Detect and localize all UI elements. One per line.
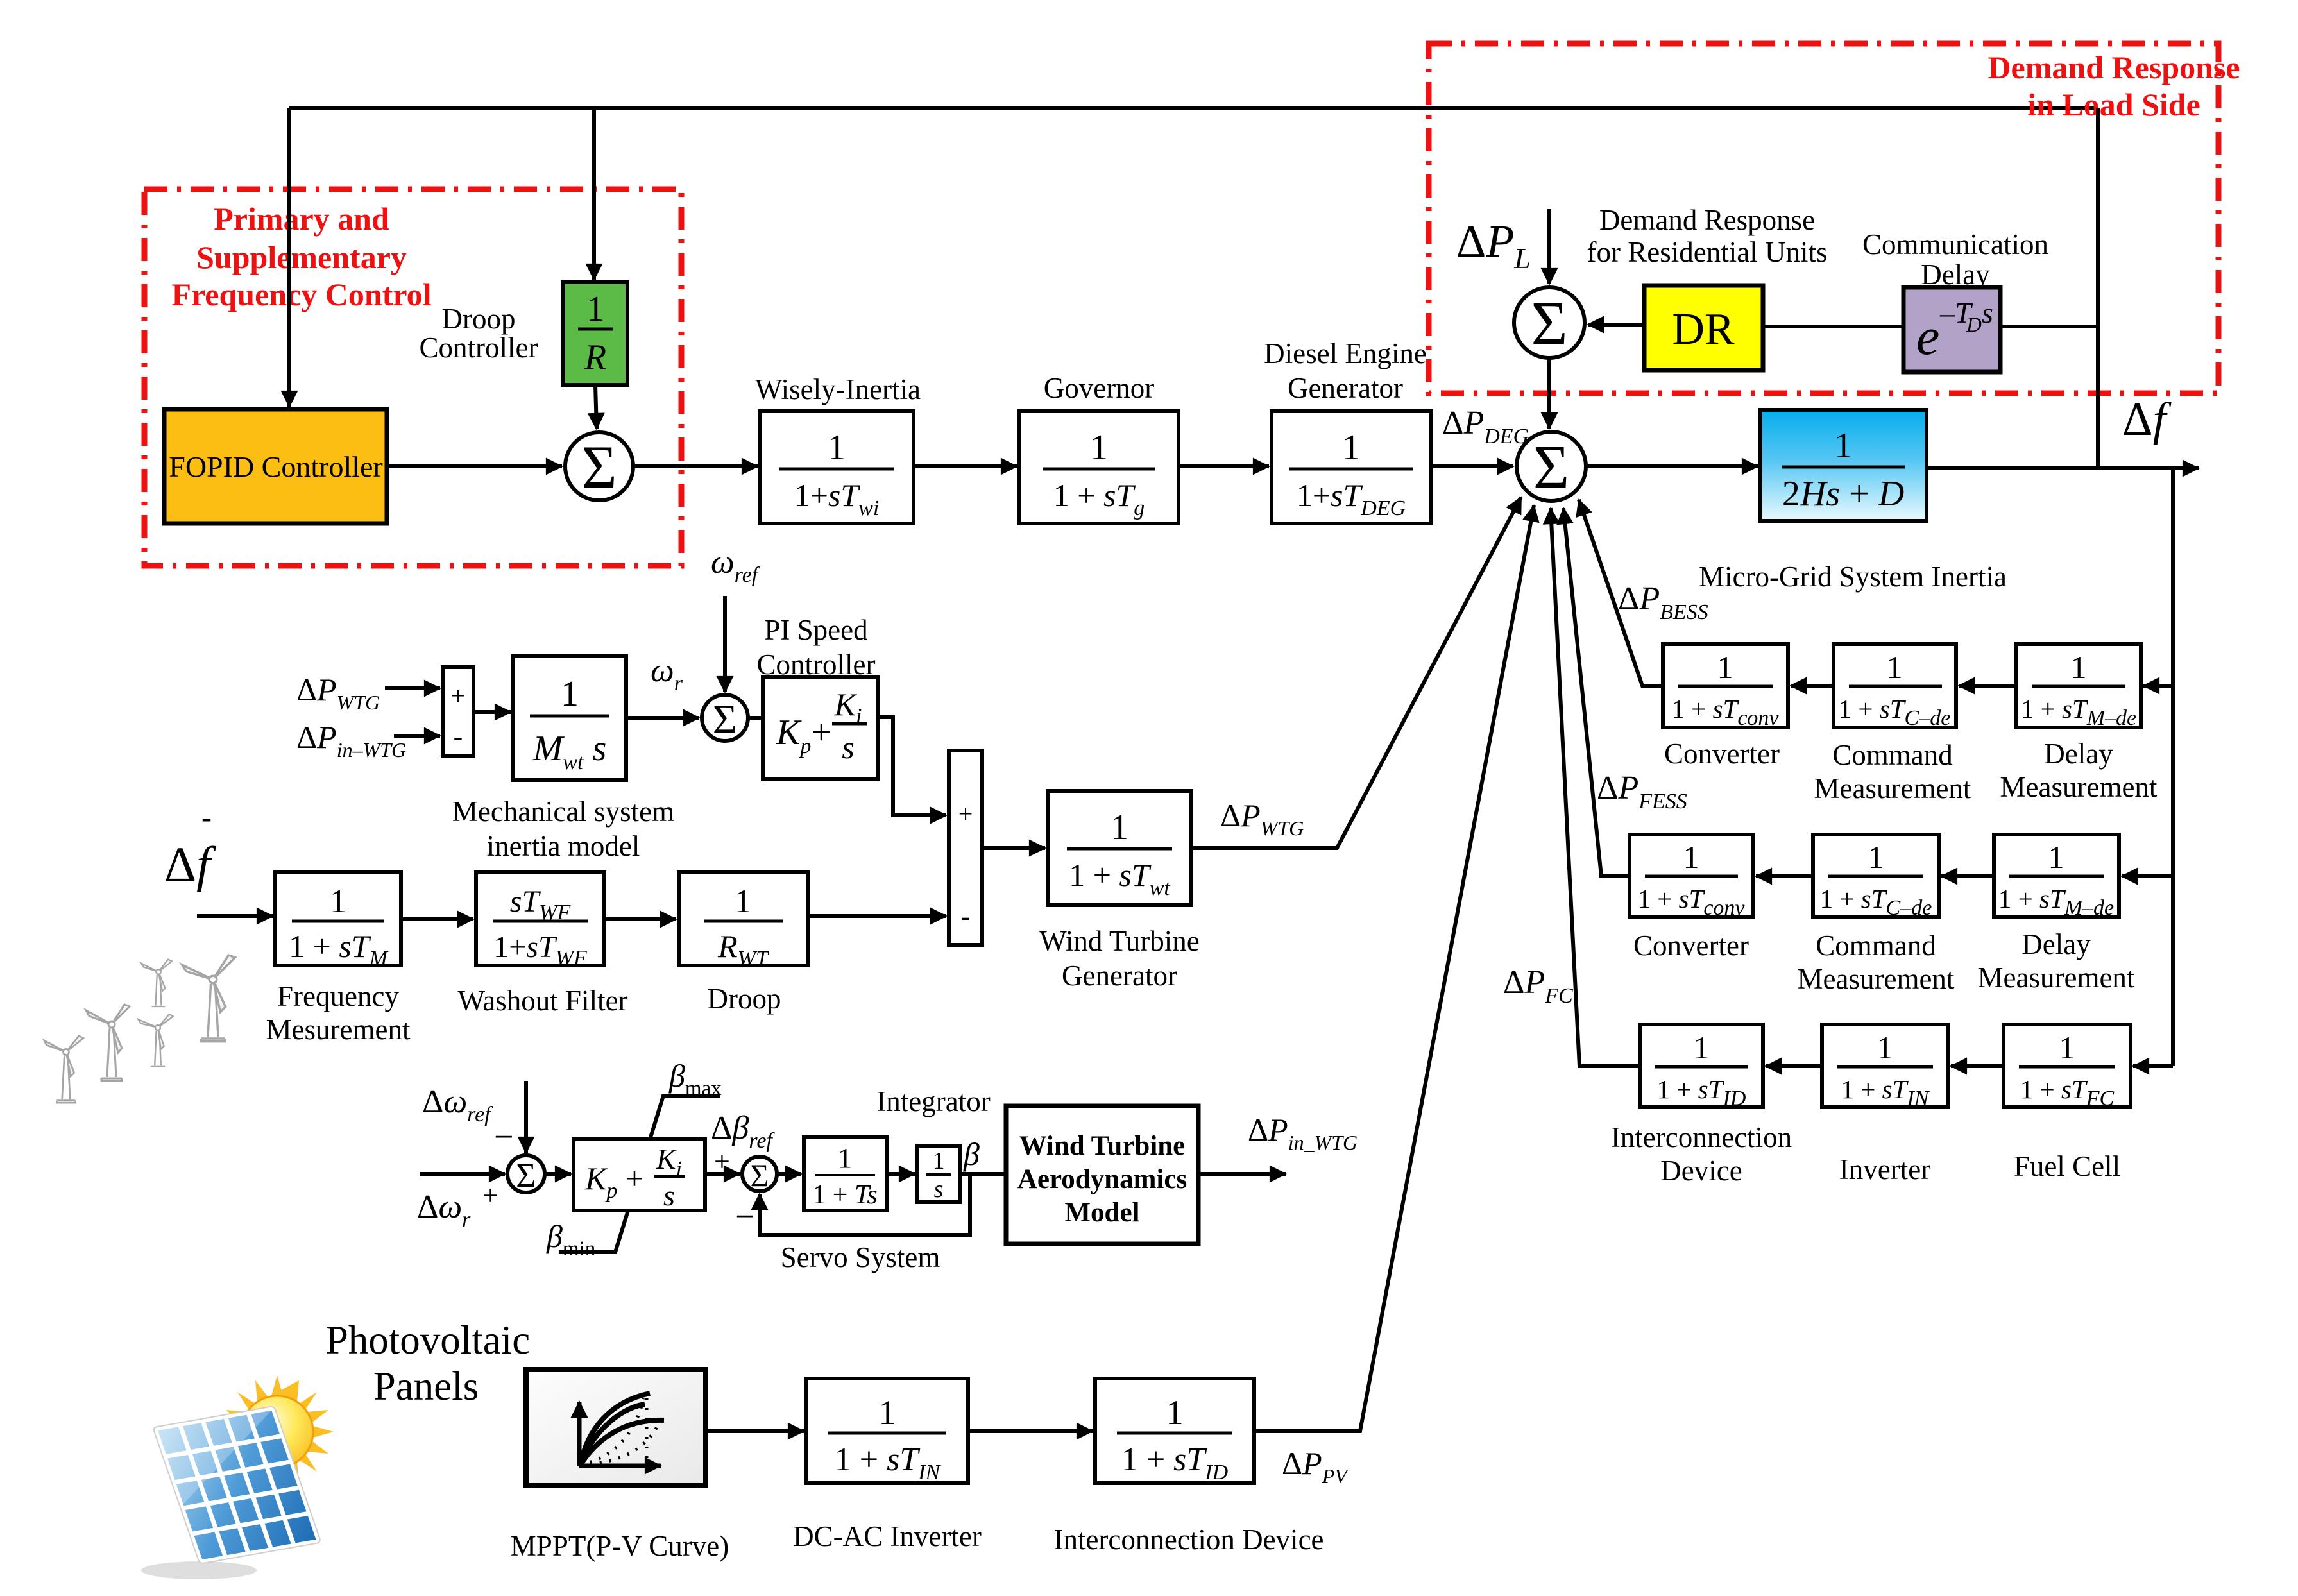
svg-text:Communication: Communication [1862, 228, 2048, 260]
label: Wind Turbine Generator [1039, 925, 1199, 992]
label: Droop Controller [420, 303, 538, 364]
wire: fuel cell to inverter [1951, 1064, 2004, 1068]
svg-text:1: 1 [1090, 428, 1108, 468]
svg-text:Σ: Σ [750, 1157, 769, 1193]
wire: command to converter (FESS) [1756, 874, 1813, 878]
label: PI Speed Controller [757, 614, 876, 681]
svg-text:Converter: Converter [1633, 930, 1749, 962]
label: Command Measurement (BESS) [1814, 739, 1971, 804]
summer: speed error [702, 695, 748, 743]
block: Droop 1/RWT [679, 872, 808, 971]
svg-text:1: 1 [933, 1148, 945, 1175]
wire: droop to combiner minus [808, 914, 946, 918]
svg-text:1: 1 [735, 883, 751, 920]
axes [577, 1402, 582, 1466]
svg-text:Frequency: Frequency [277, 980, 399, 1012]
svg-text:Measurement: Measurement [2000, 771, 2158, 803]
svg-text:+: + [482, 1180, 498, 1211]
svg-text:DC-AC Inverter: DC-AC Inverter [793, 1520, 982, 1552]
label: Delay Measurement (BESS) [2000, 738, 2158, 803]
block: FESS Delay Measurement 1/(1+sTM-de) [1994, 835, 2119, 920]
block: BESS Converter 1/(1+sTconv) [1663, 644, 1788, 730]
svg-text:1: 1 [1166, 1393, 1184, 1432]
wire: delay to command (BESS) [1959, 684, 2016, 688]
svg-text:Δf: Δf [164, 836, 216, 892]
block: Micro-Grid System Inertia 1/(2Hs+D) [1760, 410, 1927, 521]
label: Frequency Mesurement [266, 980, 411, 1046]
art: photovoltaic panel [141, 1402, 321, 1579]
saturation limit symbol [559, 1096, 720, 1252]
wire: FESS branch to main summer [1563, 508, 1630, 876]
summer: droop + FOPID [565, 432, 633, 501]
label: Command Measurement (FESS) [1798, 930, 1955, 995]
svg-text:Measurement: Measurement [1798, 963, 1955, 995]
summer: main micro-grid power balance [1517, 432, 1586, 502]
svg-text:Washout Filter: Washout Filter [457, 985, 627, 1017]
svg-text:Demand Response: Demand Response [1987, 49, 2240, 85]
svg-text:MPPT(P-V Curve): MPPT(P-V Curve) [511, 1530, 729, 1562]
label: Demand Response for Residential Units [1587, 204, 1828, 268]
svg-text:1: 1 [1342, 428, 1360, 468]
svg-text:e: e [1916, 307, 1939, 366]
label: Diesel Engine Generator [1264, 337, 1427, 404]
block: MPPT P-V curve [526, 1370, 706, 1486]
wire: DC-AC to interconnection device [968, 1429, 1093, 1433]
svg-text:1: 1 [2059, 1030, 2075, 1065]
wire: pitch summer to pitch PI [545, 1172, 571, 1176]
svg-text:Command: Command [1816, 930, 1936, 962]
svg-text:+: + [451, 681, 466, 710]
svg-text:-: - [961, 901, 971, 932]
wire: feedback to FESS delay [2122, 874, 2173, 878]
block: FC Inverter 1/(1+sTIN) [1822, 1024, 1948, 1110]
summer: servo [742, 1157, 777, 1193]
wire: MPPT to DC-AC inverter [706, 1429, 804, 1433]
wire: pitch PI to servo summer [705, 1172, 740, 1176]
svg-text:Aerodynamics: Aerodynamics [1017, 1164, 1187, 1194]
svg-text:1: 1 [586, 289, 604, 329]
svg-text:for Residential Units: for Residential Units [1587, 236, 1828, 268]
block: integrator 1/s [917, 1146, 960, 1203]
block: servo lag 1/(1+Ts) [804, 1137, 887, 1210]
svg-text:1: 1 [561, 674, 579, 714]
wire: delay to command (FESS) [1941, 874, 1994, 878]
svg-text:s: s [842, 729, 854, 765]
wire: feedback tap to delay block [2000, 325, 2098, 328]
svg-text:1: 1 [1887, 649, 1903, 685]
block: FC Interconnection Device 1/(1+sTID) [1640, 1024, 1763, 1110]
wire: Delta P_WTG into comparator [385, 686, 440, 690]
svg-text:1 + Ts: 1 + Ts [812, 1180, 878, 1210]
svg-text:Wind Turbine: Wind Turbine [1019, 1131, 1186, 1161]
svg-text:Mechanical system: Mechanical system [452, 795, 674, 828]
label: Delta f input with minus [164, 801, 216, 892]
block: Washout Filter sTWF/(1+sTWF) [476, 872, 604, 970]
svg-text:Converter: Converter [1664, 738, 1780, 770]
wire: command to converter (BESS) [1791, 684, 1834, 688]
wire: Delta P_in-WTG into comparator [394, 734, 440, 738]
svg-text:-: - [201, 801, 212, 835]
svg-text:Σ: Σ [1531, 289, 1567, 359]
svg-text:Panels: Panels [373, 1364, 479, 1409]
svg-text:Droop: Droop [442, 303, 516, 335]
svg-text:2Hs + D: 2Hs + D [1782, 474, 1904, 514]
label: Interconnection Device (FC) [1611, 1121, 1792, 1187]
svg-text:Δf: Δf [2122, 393, 2172, 446]
turbine 3 (small upper) [141, 960, 172, 1007]
block: BESS Command Measurement 1/(1+sTC-de) [1834, 644, 1956, 730]
label: Mechanical system inertia model [452, 795, 674, 862]
block: Fuel Cell 1/(1+sTFC) [2004, 1024, 2131, 1110]
wire: PV output diagonal to main summer [1254, 505, 1534, 1431]
wire: feedback vertical down to storage chains [2171, 468, 2175, 1066]
wire: comparator to inertia model [473, 710, 511, 714]
block: droop gain 1/R [563, 282, 627, 385]
svg-text:D: D [1966, 314, 1982, 337]
svg-text:Σ: Σ [581, 433, 617, 501]
svg-text:Supplementary: Supplementary [196, 239, 407, 275]
wire: BESS branch to main summer [1579, 500, 1663, 686]
svg-text:1: 1 [1717, 649, 1733, 685]
combiner: torque minus droop [949, 751, 982, 945]
svg-text:−: − [494, 1117, 513, 1156]
turbine 5 (large) [182, 955, 235, 1042]
svg-text:Photovoltaic: Photovoltaic [326, 1318, 530, 1363]
wire: inertia block output to Delta f [1927, 466, 2199, 470]
block: FESS Converter 1/(1+sTconv) [1630, 835, 1753, 920]
block: communication delay e^-TDs [1903, 287, 2000, 372]
svg-text:in Load Side: in Load Side [2027, 87, 2200, 123]
wire: feedback to fuel cell [2133, 1064, 2173, 1068]
svg-text:DR: DR [1672, 305, 1735, 354]
block: Wisely-Inertia 1/(1+sTwi) [760, 411, 914, 523]
wire: FOPID to sum [387, 464, 562, 468]
wire: aerodynamics model output [1198, 1172, 1286, 1176]
svg-text:Σ: Σ [713, 696, 737, 743]
dash-dot frame: Demand Response in Load Side [1429, 44, 2218, 393]
svg-text:Fuel Cell: Fuel Cell [2014, 1150, 2120, 1182]
wire: Governor to DEG [1179, 464, 1269, 468]
block: BESS Delay Measurement 1/(1+sTM-de) [2016, 644, 2141, 730]
svg-text:Generator: Generator [1288, 372, 1403, 404]
wire: sum to Wisely-Inertia [633, 464, 758, 468]
summer: pitch speed error [507, 1155, 545, 1194]
svg-text:Device: Device [1660, 1155, 1742, 1187]
wire: 1/R to sum [595, 385, 597, 429]
svg-text:Delay: Delay [2044, 738, 2113, 770]
label: Photovoltaic Panels [326, 1318, 530, 1409]
wire: main summer to inertia block [1586, 464, 1758, 468]
art: sun [221, 1375, 334, 1488]
wire: PI controller to combiner plus [878, 717, 946, 815]
svg-text:s: s [663, 1179, 675, 1212]
block: Diesel Engine Generator 1/(1+sTDEG) [1272, 411, 1431, 523]
block: FESS Command Measurement 1/(1+sTC-de) [1813, 835, 1939, 920]
svg-text:1: 1 [2048, 839, 2064, 875]
art: wind turbine farm [44, 955, 235, 1103]
svg-text:1: 1 [838, 1142, 852, 1174]
wire: FC branch to main summer [1551, 508, 1640, 1066]
svg-text:β: β [963, 1136, 980, 1172]
svg-text:Wisely-Inertia: Wisely-Inertia [755, 373, 921, 405]
block: Wind Turbine Aerodynamics Model [1006, 1106, 1198, 1244]
svg-text:1: 1 [1111, 808, 1128, 847]
block: Wind Turbine Generator 1/(1+sTwt) [1048, 791, 1191, 905]
svg-text:1: 1 [1694, 1030, 1710, 1065]
svg-text:Delay: Delay [2021, 928, 2091, 960]
block: PI controller Kp+Ki/s [763, 677, 878, 779]
wire: servo feedback [760, 1174, 970, 1235]
block: DR [1644, 285, 1763, 370]
svg-text:s: s [934, 1176, 944, 1203]
block: pitch PI Kp+Ki/s [574, 1139, 705, 1212]
svg-text:1: 1 [1877, 1030, 1893, 1065]
block: Governor 1/(1+sTg) [1019, 411, 1179, 523]
svg-text:Diesel Engine: Diesel Engine [1264, 337, 1427, 369]
svg-text:Controller: Controller [420, 332, 538, 364]
svg-text:R: R [584, 337, 606, 377]
svg-text:1: 1 [1834, 426, 1852, 466]
turbine 1 (partial left) [44, 1036, 83, 1103]
svg-text:Mesurement: Mesurement [266, 1014, 411, 1046]
svg-text:Integrator: Integrator [876, 1085, 990, 1117]
wire: omega_ref into speed summer [723, 596, 727, 692]
label: Delta P_L [1456, 216, 1531, 275]
svg-text:Governor: Governor [1044, 372, 1154, 404]
title: Primary and Supplementary Frequency Control [171, 201, 431, 312]
svg-text:1: 1 [1683, 839, 1699, 875]
svg-text:1: 1 [330, 883, 346, 920]
block: FOPID Controller [164, 409, 387, 523]
svg-text:1: 1 [879, 1393, 896, 1432]
wire: integrator to aerodynamics model [960, 1172, 1006, 1176]
svg-text:Primary and: Primary and [214, 201, 389, 237]
svg-text:PI Speed: PI Speed [764, 614, 867, 646]
svg-text:Demand Response: Demand Response [1599, 204, 1815, 236]
wire: feedback down to FOPID Controller [287, 108, 291, 407]
block: mechanical inertia 1/(Mwt s) [513, 656, 626, 780]
wire: DR summer down to main summer [1547, 358, 1551, 429]
svg-text:Σ: Σ [516, 1156, 536, 1194]
wire: top feedback horizontal [289, 106, 2098, 110]
wire: DR to summer [1588, 323, 1644, 327]
wire: washout to droop [604, 917, 676, 921]
block: DC-AC Inverter 1/(1+sTIN) [806, 1379, 968, 1484]
svg-text:inertia model: inertia model [487, 830, 640, 862]
svg-text:Droop: Droop [708, 983, 781, 1015]
svg-text:Interconnection Device: Interconnection Device [1053, 1524, 1323, 1556]
svg-text:Frequency Control: Frequency Control [171, 276, 431, 312]
wire: DEG to main summer [1431, 464, 1513, 468]
block: PV Interconnection Device 1/(1+sTID) [1095, 1379, 1254, 1484]
wire: Delta omega_ref into pitch summer [524, 1081, 528, 1153]
svg-text:−: − [735, 1197, 754, 1235]
wire: inertia model to speed summer [626, 716, 699, 720]
wire: Delta omega_r into pitch summer [420, 1172, 505, 1176]
svg-text:Wind Turbine: Wind Turbine [1039, 925, 1199, 957]
wire: feedback to BESS delay [2143, 684, 2173, 688]
svg-text:Inverter: Inverter [1839, 1153, 1930, 1185]
svg-text:-: - [454, 721, 463, 752]
turbine 2 [86, 1005, 130, 1081]
title: Demand Response in Load Side [1987, 49, 2240, 123]
svg-text:s: s [1982, 296, 1993, 329]
wire: Delta P_L into DR summer [1547, 209, 1551, 284]
wire: combiner to wind turbine generator [982, 846, 1045, 850]
wire: frequency measurement to washout [401, 917, 473, 921]
label: Delay Measurement (FESS) [1978, 928, 2135, 994]
svg-text:1: 1 [2071, 649, 2087, 685]
svg-text:1: 1 [828, 428, 846, 468]
wire: feedback down to droop 1/R [592, 108, 596, 280]
svg-text:Command: Command [1832, 739, 1953, 771]
wire: servo summer to servo lag [777, 1172, 801, 1176]
svg-text:Interconnection: Interconnection [1611, 1121, 1792, 1153]
wire: Wisely to Governor [914, 464, 1017, 468]
svg-text:+: + [958, 799, 973, 828]
wire: WTG output diagonal to main summer [1191, 497, 1521, 848]
wire: inverter to interconnection (FC) [1766, 1064, 1822, 1068]
wire: delay block to DR [1763, 325, 1903, 328]
wire: Delta f into frequency measurement [197, 914, 273, 918]
label: Communication Delay [1862, 228, 2048, 291]
wire: servo lag to integrator [887, 1172, 915, 1176]
svg-text:FOPID Controller: FOPID Controller [169, 450, 383, 483]
turbine 4 [139, 1014, 173, 1067]
comparator: wind power difference [443, 667, 473, 756]
svg-text:Servo System: Servo System [781, 1241, 940, 1273]
wire: speed summer to PI controller [748, 716, 763, 720]
svg-text:1: 1 [1868, 839, 1884, 875]
dash-dot frame: Primary and Supplementary Frequency Control [144, 189, 681, 566]
svg-text:Measurement: Measurement [1978, 962, 2135, 994]
svg-text:Σ: Σ [1533, 433, 1569, 502]
svg-text:Model: Model [1064, 1198, 1139, 1228]
wire: feedback vertical up [2096, 108, 2100, 468]
summer: demand response [1514, 287, 1585, 359]
block: Frequency Measurement 1/(1+sTM) [275, 872, 401, 971]
svg-text:Generator: Generator [1062, 960, 1177, 992]
svg-text:Measurement: Measurement [1814, 772, 1971, 804]
svg-text:Micro-Grid System Inertia: Micro-Grid System Inertia [1699, 561, 2007, 593]
